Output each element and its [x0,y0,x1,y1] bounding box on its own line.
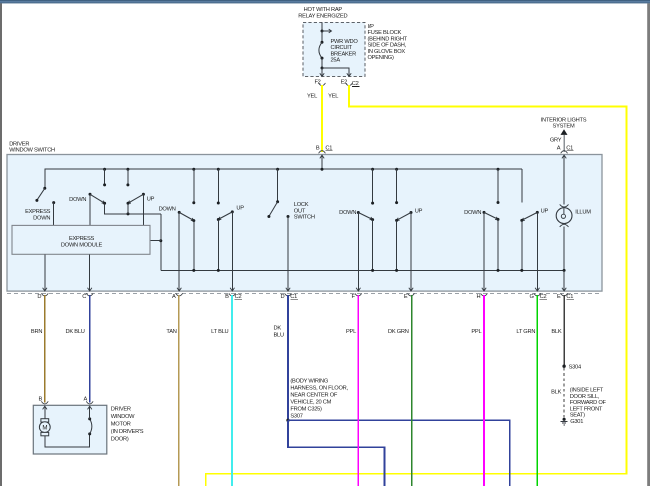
svg-text:G301: G301 [570,419,583,425]
driver window motor box [33,405,107,454]
svg-text:BRN: BRN [31,329,42,335]
pin D connector [41,293,48,296]
svg-text:(INSIDE LEFT: (INSIDE LEFT [570,388,604,394]
svg-text:UP: UP [236,205,244,211]
svg-text:A: A [172,294,176,300]
bus junction at pin B feed [321,168,324,171]
svg-text:DOWN MODULE: DOWN MODULE [61,243,103,249]
driver UP switch pivot [142,193,145,196]
express down switch contact from bus [43,187,46,190]
lamp bottom terminal [560,224,569,227]
driver DOWN moving contact lead [105,203,161,214]
svg-text:DK GRN: DK GRN [388,329,409,335]
front passenger UP switch blade [218,212,232,220]
right rear UP contact lead to rail [521,220,523,270]
svg-text:A: A [557,146,561,152]
pin G of C2 connector [534,293,541,296]
svg-text:OUT: OUT [294,208,306,214]
right rear DOWN switch pivot [483,211,486,214]
motor circuit breaker [88,432,91,435]
svg-text:LEFT FRONT: LEFT FRONT [570,406,603,412]
driver DOWN switch blade [90,194,105,203]
wire LT GRN from pin G [536,295,538,486]
right rear UP switch blade [522,212,538,220]
svg-text:BLU: BLU [274,333,284,339]
feed junction [321,30,324,33]
wire to pin E2 [322,68,349,72]
lamp top terminal [560,204,569,207]
ground rail inside switch [161,269,564,271]
driver DOWN switch pivot [89,193,92,196]
express down module box [12,225,150,254]
svg-text:SEAT): SEAT) [570,413,585,419]
svg-text:MOTOR: MOTOR [111,422,131,428]
pin H arrow [483,286,485,290]
bus stub for driver DOWN contact [103,168,106,171]
left rear DOWN switch blade [358,213,372,220]
svg-text:DOOR): DOOR) [111,437,129,443]
rail junction at lamp [563,269,566,272]
circuit breaker PWR WDO 25A [321,31,323,42]
svg-text:DOOR SILL,: DOOR SILL, [570,394,600,400]
svg-text:PWR WDO: PWR WDO [331,39,359,45]
svg-text:C: C [82,294,86,300]
svg-text:FROM C325): FROM C325) [290,407,322,413]
module output to pin C [89,254,91,290]
wire BRN from pin D to motor [44,295,46,403]
wire LT BLU from pin B [231,295,233,486]
svg-text:LT GRN: LT GRN [516,329,535,335]
left rear UP switch pivot [410,211,413,214]
wire BLK dashed to ground [563,368,565,419]
wire DK BLU from pin C to motor [89,295,91,403]
svg-text:DRIVER: DRIVER [9,141,29,147]
front passenger DOWN switch pivot [178,211,181,214]
feed wire from RAP relay [321,22,323,31]
bus stub for right rear DOWN contact [497,168,500,171]
front passenger DOWN switch blade [179,212,194,220]
svg-text:(BEHIND RIGHT: (BEHIND RIGHT [368,36,408,42]
left rear DOWN contact lead to rail [372,220,374,271]
junction of driver switch leads [127,212,130,215]
left rear UP switch blade [397,213,411,221]
svg-text:WINDOW SWITCH: WINDOW SWITCH [9,148,55,154]
splice S307 [286,419,289,422]
driver window switch box [7,155,602,292]
svg-text:SWITCH: SWITCH [294,215,315,221]
express down switch blade [37,188,45,200]
svg-text:BLK: BLK [551,329,561,335]
module output to pin D [44,254,46,290]
bus stub for driver UP contact [126,168,129,171]
svg-text:(BODY WIRING: (BODY WIRING [290,379,328,385]
svg-text:G: G [530,294,534,300]
svg-text:PPL: PPL [471,329,481,335]
svg-text:M: M [42,425,47,432]
pin E of C1 arrow [563,270,565,290]
svg-text:YEL: YEL [307,94,317,100]
pin E connector [408,293,415,296]
ground G301 [563,418,566,421]
lock out switch fixed contact [287,215,290,218]
svg-text:(IN DRIVER'S: (IN DRIVER'S [111,429,144,435]
motor internal wire [45,434,90,447]
svg-text:D: D [37,294,41,300]
splice S304 [562,365,565,368]
pin C connector [86,293,93,296]
svg-text:UP: UP [147,197,155,203]
pin E arrow [410,286,412,290]
feed arrow to other circuits [322,30,331,32]
svg-text:BREAKER: BREAKER [331,51,357,57]
svg-text:NEAR CENTER OF: NEAR CENTER OF [290,393,338,399]
express down module contact [52,201,55,204]
power bus inside switch [45,169,522,188]
svg-text:I/P: I/P [368,24,375,30]
wire DK BLU branch right [288,420,510,486]
svg-text:TAN: TAN [166,329,176,335]
right scrollbar [647,3,650,486]
I/P fuse block box (dashed) [303,22,365,76]
bus stub for lock out switch [276,168,279,171]
lock out switch lead to pin D of C1 [287,217,289,287]
svg-text:DOWN: DOWN [339,210,356,216]
svg-text:HOT WITH RAP: HOT WITH RAP [304,7,343,13]
bus right end drop for right rear UP contact [521,169,523,202]
junction with express down module output [159,239,162,242]
lead from driver switches to ground rail [160,214,162,271]
svg-text:S307: S307 [290,414,302,420]
svg-text:HARNESS, ON FLOOR,: HARNESS, ON FLOOR, [290,386,348,392]
svg-text:LOCK: LOCK [294,202,309,208]
svg-text:DOWN: DOWN [33,215,50,221]
illumination lamp ILLUM [556,208,572,224]
svg-text:EXPRESS: EXPRESS [25,209,51,215]
svg-text:IN GLOVE BOX: IN GLOVE BOX [368,49,406,55]
pin E of C1 connector [561,293,568,296]
svg-text:BLK: BLK [551,390,561,396]
pin B arrow [231,286,233,290]
svg-text:B: B [316,146,320,152]
svg-text:DK: DK [274,326,282,332]
svg-text:25A: 25A [331,58,341,64]
right rear DOWN switch blade [484,212,498,219]
svg-text:VEHICLE, 20 CM: VEHICLE, 20 CM [290,400,331,406]
svg-text:EXPRESS: EXPRESS [69,236,95,242]
bus stub for rear left UP contact [395,168,398,171]
svg-text:UP: UP [415,208,423,214]
lamp lead to ground rail [563,227,565,271]
left frame edge [0,3,1,486]
svg-text:H: H [477,294,481,300]
motor pin B arrow [44,407,46,414]
wire to pin F2 [321,68,323,76]
pin G arrow [536,286,538,290]
bus stub for rear left DOWN contact [371,168,374,171]
left rear UP contact lead to rail [396,220,398,270]
svg-text:CIRCUIT: CIRCUIT [331,45,353,51]
svg-text:LT BLU: LT BLU [211,329,228,335]
wire PPL from pin F [357,295,359,486]
svg-text:YEL: YEL [328,94,338,100]
right rear UP switch pivot [536,211,539,214]
wire BLK from pin E of C1 [563,295,565,366]
junction below breaker [321,67,324,70]
pin F arrow [357,286,359,290]
svg-text:DK BLU: DK BLU [66,329,85,335]
pin A connector [176,293,183,296]
wire DK GRN from pin E [411,295,413,486]
wire PPL from pin H [483,295,485,486]
pin F connector [355,293,362,296]
express down module output stub [150,240,161,242]
left rear DOWN switch pivot [357,211,360,214]
svg-text:RELAY ENERGIZED: RELAY ENERGIZED [298,14,347,20]
front passenger UP contact lead to rail [217,220,219,271]
svg-text:FUSE BLOCK: FUSE BLOCK [368,30,402,36]
svg-text:SIDE OF DASH,: SIDE OF DASH, [368,43,407,49]
pin A arrow [178,286,180,290]
svg-text:FORWARD OF: FORWARD OF [570,400,607,406]
svg-text:DRIVER: DRIVER [111,406,131,412]
svg-text:F: F [351,294,355,300]
svg-text:UP: UP [541,208,549,214]
bus stub for front passenger UP contact [217,168,220,171]
svg-text:D: D [281,294,285,300]
svg-text:DOWN: DOWN [69,197,86,203]
pin B of C2 connector [229,293,236,296]
svg-text:GRY: GRY [550,138,562,144]
connector dashed line at box bottom [7,293,602,295]
svg-text:ILLUM: ILLUM [575,209,591,215]
driver UP switch blade [128,194,143,203]
svg-text:PPL: PPL [346,329,356,335]
lock out switch blade [269,202,278,217]
svg-text:DOWN: DOWN [159,207,176,213]
svg-text:B: B [225,294,229,300]
bus stub for front passenger DOWN contact [192,168,195,171]
motor M symbol [44,413,46,418]
wire TAN from pin A [178,295,180,486]
front passenger DOWN contact lead to rail [193,221,195,271]
motor pin A arrow [89,407,91,414]
pin D of C1 connector [285,293,292,296]
front passenger UP switch pivot [231,210,234,213]
svg-text:WINDOW: WINDOW [111,414,135,420]
svg-text:E: E [557,294,561,300]
wire DK BLU from pin D of C1 to S307 [287,295,289,421]
svg-text:E: E [404,294,408,300]
svg-text:DOWN: DOWN [464,210,481,216]
svg-text:S304: S304 [569,364,581,370]
illumination lamp feed from pin A of C1 [563,156,565,205]
wire DK BLU branch down [288,420,385,486]
svg-text:SYSTEM: SYSTEM [553,124,575,130]
pin H connector [481,293,488,296]
svg-text:OPENING): OPENING) [368,55,394,61]
svg-text:E2: E2 [341,79,348,85]
right rear DOWN contact lead to rail [497,219,499,270]
svg-text:INTERIOR LIGHTS: INTERIOR LIGHTS [541,117,587,123]
